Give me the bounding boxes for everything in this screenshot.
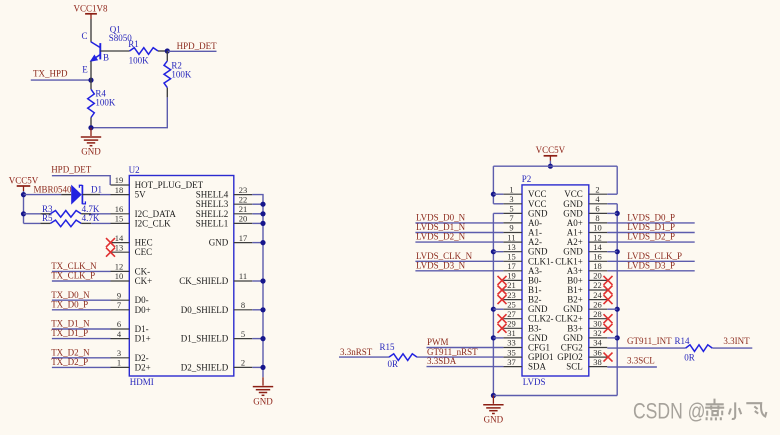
svg-text:CEC: CEC bbox=[135, 247, 153, 257]
junction pin 1 VCC bbox=[491, 192, 496, 197]
wire VCC rail right to pin 2 bbox=[616, 166, 618, 194]
svg-text:D0-: D0- bbox=[135, 295, 149, 305]
svg-text:21: 21 bbox=[507, 280, 516, 290]
svg-text:3.3SDA: 3.3SDA bbox=[427, 356, 457, 366]
svg-text:15: 15 bbox=[507, 252, 516, 262]
junction GND rail right bbox=[615, 211, 620, 216]
pin anode of D1 bbox=[61, 194, 71, 196]
svg-text:8: 8 bbox=[595, 213, 599, 223]
junction bbox=[165, 48, 170, 53]
wire rail to pin bbox=[493, 337, 503, 339]
svg-text:B: B bbox=[103, 52, 109, 62]
svg-text:100K: 100K bbox=[95, 98, 116, 108]
svg-text:5: 5 bbox=[241, 329, 245, 339]
svg-text:24: 24 bbox=[593, 290, 602, 300]
svg-text:GND: GND bbox=[484, 415, 504, 425]
svg-text:23: 23 bbox=[507, 290, 516, 300]
svg-text:CK+: CK+ bbox=[135, 276, 153, 286]
svg-text:20: 20 bbox=[593, 271, 602, 281]
pin 11 (CK_SHIELD) of U2 bbox=[179, 271, 252, 286]
svg-text:B3-: B3- bbox=[528, 323, 542, 333]
svg-text:1: 1 bbox=[117, 358, 121, 368]
pin 18 (A3+) of P2 bbox=[567, 261, 608, 276]
wire net LVDS_D1_P bbox=[607, 232, 694, 234]
pin of R5 bbox=[40, 222, 50, 224]
wire net LVDS_D3_N bbox=[415, 270, 503, 272]
wire shield pin row to rail bbox=[252, 203, 263, 205]
pin 35 (GPIO1) of P2 bbox=[503, 347, 553, 362]
wire VCC5V to rail P2 bbox=[549, 161, 551, 166]
svg-text:10: 10 bbox=[115, 271, 124, 281]
svg-text:10: 10 bbox=[593, 223, 602, 233]
svg-text:19: 19 bbox=[115, 175, 124, 185]
no-connect X pin 28 bbox=[604, 314, 613, 323]
svg-text:R14: R14 bbox=[675, 336, 691, 346]
wire R4 lead bbox=[90, 118, 92, 128]
no-connect X pin 22 bbox=[604, 286, 613, 295]
no-connect X pin 30 bbox=[604, 324, 613, 333]
pin 10 (CK+) of U2 bbox=[111, 271, 153, 286]
wire rail to pin bbox=[493, 193, 503, 195]
pin 24 (B2+) of P2 bbox=[567, 290, 607, 305]
junction bbox=[260, 202, 265, 207]
power VCC5V at P2 bbox=[536, 145, 566, 161]
svg-text:MBR0540: MBR0540 bbox=[34, 184, 73, 194]
svg-text:35: 35 bbox=[507, 347, 516, 357]
svg-text:21: 21 bbox=[239, 204, 248, 214]
wire net 3.3nRST bbox=[339, 356, 389, 358]
svg-text:HEC: HEC bbox=[135, 238, 153, 248]
svg-text:18: 18 bbox=[115, 185, 124, 195]
wire shield pin row to rail bbox=[252, 366, 263, 368]
svg-text:VCC: VCC bbox=[564, 189, 583, 199]
svg-text:B1-: B1- bbox=[528, 285, 542, 295]
wire net LVDS_D3_P bbox=[607, 270, 694, 272]
wire net TX_D1_N bbox=[52, 328, 111, 330]
no-connect X pin 24 bbox=[604, 295, 613, 304]
pin 16 (CLK1+) of P2 bbox=[555, 252, 607, 267]
junction bbox=[260, 278, 265, 283]
svg-text:LVDS_D3_N: LVDS_D3_N bbox=[416, 260, 466, 270]
junction GND bottom bbox=[491, 393, 496, 398]
svg-text:25: 25 bbox=[507, 299, 516, 309]
svg-text:SHELL2: SHELL2 bbox=[196, 209, 229, 219]
pin 10 (A1+) of P2 bbox=[567, 223, 608, 238]
wire R2 to ground node bbox=[91, 97, 167, 127]
wire net 3.3INT bbox=[712, 347, 752, 349]
svg-text:D1+: D1+ bbox=[135, 334, 151, 344]
pin 8 (A0+) of P2 bbox=[567, 213, 608, 228]
junction GND rail left bbox=[491, 307, 496, 312]
svg-text:D1-: D1- bbox=[135, 324, 149, 334]
svg-text:17: 17 bbox=[507, 261, 516, 271]
wire net LVDS_CLK_N bbox=[415, 260, 503, 262]
svg-text:16: 16 bbox=[115, 204, 124, 214]
svg-text:20: 20 bbox=[239, 214, 248, 224]
svg-text:16: 16 bbox=[593, 252, 602, 262]
svg-text:12: 12 bbox=[115, 262, 124, 272]
pin 7 (D0+) of U2 bbox=[111, 300, 151, 315]
wire net HPD_DET bbox=[167, 50, 216, 52]
svg-text:LVDS_D1_P: LVDS_D1_P bbox=[627, 222, 675, 232]
junction bbox=[260, 240, 265, 245]
wire net LVDS_D0_P bbox=[607, 222, 694, 224]
svg-text:33: 33 bbox=[507, 338, 516, 348]
svg-text:GND: GND bbox=[81, 147, 101, 157]
wire emitter to node bbox=[90, 61, 92, 80]
svg-text:37: 37 bbox=[507, 357, 516, 367]
svg-text:R1: R1 bbox=[128, 39, 139, 49]
pin 13 (GND) of P2 bbox=[503, 242, 548, 257]
svg-text:B2-: B2- bbox=[528, 295, 542, 305]
pin 8 (D0_SHIELD) of U2 bbox=[181, 300, 252, 315]
wire GND rail right of P2 bbox=[616, 204, 618, 396]
svg-text:D2-: D2- bbox=[135, 353, 149, 363]
svg-text:D0_SHIELD: D0_SHIELD bbox=[181, 305, 229, 315]
svg-text:TX_D1_P: TX_D1_P bbox=[51, 328, 88, 338]
svg-text:28: 28 bbox=[593, 309, 602, 319]
wire R3 to pin 16 bbox=[91, 213, 110, 215]
no-connect X pin 13 bbox=[106, 248, 115, 257]
svg-text:A3-: A3- bbox=[528, 266, 542, 276]
svg-text:GND: GND bbox=[209, 238, 229, 248]
svg-text:CLK2+: CLK2+ bbox=[555, 314, 583, 324]
svg-text:P2: P2 bbox=[522, 174, 532, 184]
pin 15 (I2C_CLK) of U2 bbox=[111, 214, 172, 229]
wire shield pin row to rail bbox=[252, 222, 263, 224]
pin 7 (A0-) of P2 bbox=[503, 213, 542, 228]
svg-text:A2+: A2+ bbox=[567, 237, 583, 247]
junction GND rail left bbox=[491, 249, 496, 254]
pin 12 (A2+) of P2 bbox=[567, 232, 608, 247]
pin 5 (D1_SHIELD) of U2 bbox=[181, 329, 252, 344]
wire rail to pin right bbox=[607, 212, 617, 214]
svg-text:B3+: B3+ bbox=[567, 323, 583, 333]
svg-text:22: 22 bbox=[239, 194, 248, 204]
pin 14 (HEC) of U2 bbox=[111, 233, 153, 248]
pin 32 (GND) of P2 bbox=[563, 328, 607, 343]
pin 6 (GND) of P2 bbox=[563, 204, 607, 219]
svg-text:LVDS: LVDS bbox=[523, 377, 546, 387]
resistor R4 bbox=[88, 89, 95, 117]
resistor R3 bbox=[50, 211, 81, 218]
pin 36 (GPIO2) of P2 bbox=[557, 347, 607, 362]
svg-text:U2: U2 bbox=[129, 165, 140, 175]
pin 20 (B0+) of P2 bbox=[567, 271, 607, 286]
wire shield pin row to rail bbox=[252, 338, 263, 340]
pin 27 (CLK2-) of P2 bbox=[503, 309, 553, 324]
svg-text:LVDS_D1_N: LVDS_D1_N bbox=[416, 222, 466, 232]
svg-text:B1+: B1+ bbox=[567, 285, 583, 295]
wire rail to pin bbox=[493, 203, 503, 205]
wire VCC5V to D1 bbox=[24, 194, 62, 196]
pin 23 (SHELL4) of U2 bbox=[196, 185, 252, 200]
wire VCC top rail bbox=[493, 165, 617, 167]
svg-text:3.3nRST: 3.3nRST bbox=[340, 347, 373, 357]
wire U2 shield ground rail bbox=[252, 195, 263, 378]
svg-text:GND: GND bbox=[528, 247, 548, 257]
pin 20 (SHELL1) of U2 bbox=[196, 214, 252, 229]
wire rail to pin right bbox=[607, 203, 617, 205]
transistor Q1 bbox=[91, 42, 101, 62]
svg-text:29: 29 bbox=[507, 319, 516, 329]
watermark CSDN @yanxiaofei bbox=[633, 398, 766, 423]
svg-text:38: 38 bbox=[593, 357, 602, 367]
svg-text:CK_SHIELD: CK_SHIELD bbox=[179, 276, 228, 286]
svg-text:LVDS_D0_N: LVDS_D0_N bbox=[416, 213, 466, 223]
connector U2 (HDMI) box bbox=[129, 176, 234, 377]
svg-text:32: 32 bbox=[593, 328, 602, 338]
wire net 3.3SCL bbox=[607, 366, 657, 368]
wire net TX_CLK_P bbox=[52, 280, 111, 282]
svg-text:6: 6 bbox=[595, 204, 599, 214]
connector P2 (LVDS) box bbox=[522, 185, 589, 376]
pin 19 (B0-) of P2 bbox=[503, 271, 541, 286]
wire node to R4 bbox=[90, 80, 92, 89]
wire VCC5V rail bbox=[23, 191, 25, 223]
svg-text:18: 18 bbox=[593, 261, 602, 271]
pin 1 (D2+) of U2 bbox=[111, 358, 151, 373]
wire rail to pin bbox=[493, 212, 503, 214]
wire net TX_D2_N bbox=[52, 357, 111, 359]
svg-text:4.7K: 4.7K bbox=[82, 213, 100, 223]
svg-text:D1: D1 bbox=[91, 184, 102, 194]
svg-text:D0+: D0+ bbox=[135, 305, 151, 315]
wire net TX_HPD bbox=[31, 79, 91, 81]
wire rail to pin bbox=[493, 308, 503, 310]
resistor R1 bbox=[130, 48, 159, 55]
no-connect X pin 14 bbox=[106, 238, 115, 247]
ground GND of P2 bbox=[483, 396, 503, 425]
svg-text:7: 7 bbox=[117, 300, 121, 310]
svg-text:5: 5 bbox=[509, 204, 513, 214]
svg-text:TX_D0_P: TX_D0_P bbox=[51, 299, 88, 309]
svg-text:HOT_PLUG_DET: HOT_PLUG_DET bbox=[135, 180, 204, 190]
wire shield pin row to rail bbox=[252, 242, 263, 244]
junction VCC rail / D1 bbox=[21, 192, 26, 197]
wire base to R1 bbox=[100, 50, 129, 52]
svg-text:3: 3 bbox=[117, 348, 121, 358]
svg-text:GND: GND bbox=[563, 247, 583, 257]
svg-text:HPD_DET: HPD_DET bbox=[51, 165, 92, 175]
svg-text:SDA: SDA bbox=[528, 362, 547, 372]
resistor R5 bbox=[50, 220, 81, 227]
ground GND of transistor circuit bbox=[81, 128, 101, 157]
wire net LVDS_D2_P bbox=[607, 241, 694, 243]
svg-text:A1+: A1+ bbox=[567, 228, 583, 238]
wire R2 lead bbox=[166, 88, 168, 98]
svg-text:B2+: B2+ bbox=[567, 295, 583, 305]
svg-text:LVDS_CLK_P: LVDS_CLK_P bbox=[627, 251, 682, 261]
svg-text:A1-: A1- bbox=[528, 228, 542, 238]
no-connect X pin 20 bbox=[604, 276, 613, 285]
svg-text:6: 6 bbox=[117, 319, 121, 329]
svg-text:CFG1: CFG1 bbox=[528, 343, 550, 353]
no-connect X pin 21 bbox=[498, 286, 507, 295]
svg-text:31: 31 bbox=[507, 328, 516, 338]
svg-text:100K: 100K bbox=[129, 56, 150, 66]
wire shield pin row to rail bbox=[252, 213, 263, 215]
junction bbox=[260, 336, 265, 341]
wire HPD_DET to pin 19 bbox=[52, 176, 110, 185]
svg-text:R15: R15 bbox=[380, 342, 396, 352]
svg-text:GND: GND bbox=[563, 333, 583, 343]
svg-text:CFG2: CFG2 bbox=[561, 343, 583, 353]
svg-text:D2+: D2+ bbox=[135, 362, 151, 372]
wire D1 to pin 18 bbox=[100, 194, 111, 196]
svg-text:LVDS_D2_P: LVDS_D2_P bbox=[627, 232, 675, 242]
wire collector to VCC1V8 bbox=[90, 19, 92, 42]
svg-text:11: 11 bbox=[239, 271, 247, 281]
svg-text:19: 19 bbox=[507, 271, 516, 281]
ground GND of U2 shield bbox=[253, 377, 273, 406]
wire VCC5V to R3 bbox=[24, 213, 41, 215]
wire shield pin row to rail bbox=[252, 309, 263, 311]
wire R1 to node HPD_DET bbox=[158, 50, 167, 52]
no-connect X pin 19 bbox=[498, 276, 507, 285]
pin 33 (CFG1) of P2 bbox=[503, 338, 550, 353]
wire net TX_D2_P bbox=[52, 366, 111, 368]
svg-text:SHELL4: SHELL4 bbox=[196, 190, 229, 200]
svg-text:A0-: A0- bbox=[528, 218, 542, 228]
svg-text:CLK2-: CLK2- bbox=[528, 314, 554, 324]
pin 17 (GND) of U2 bbox=[209, 233, 253, 248]
svg-text:PWM: PWM bbox=[427, 337, 449, 347]
svg-text:VCC5V: VCC5V bbox=[536, 145, 566, 155]
power VCC1V8 bbox=[73, 3, 108, 19]
pin 19 (HOT_PLUG_DET) of U2 bbox=[111, 175, 204, 190]
svg-text:LVDS_D2_N: LVDS_D2_N bbox=[416, 232, 466, 242]
svg-text:TX_D0_N: TX_D0_N bbox=[51, 290, 90, 300]
pin 4 (D1+) of U2 bbox=[111, 329, 151, 344]
resistor R2 bbox=[164, 61, 171, 88]
wire shield pin row to rail bbox=[252, 280, 263, 282]
svg-text:TX_CLK_P: TX_CLK_P bbox=[51, 271, 95, 281]
wire net GT911_nRST bbox=[417, 356, 503, 358]
wire net LVDS_D2_N bbox=[415, 241, 503, 243]
svg-text:VCC1V8: VCC1V8 bbox=[73, 3, 108, 13]
pin 4 (GND) of P2 bbox=[563, 194, 607, 209]
svg-text:VCC: VCC bbox=[528, 189, 547, 199]
svg-text:GPIO1: GPIO1 bbox=[528, 352, 554, 362]
svg-text:A3+: A3+ bbox=[567, 266, 583, 276]
wire rail to pin right bbox=[607, 337, 617, 339]
svg-text:8: 8 bbox=[241, 300, 245, 310]
svg-text:GND: GND bbox=[253, 396, 273, 406]
wire GND rail left of P2 bbox=[492, 213, 494, 395]
wire net TX_D1_P bbox=[52, 338, 111, 340]
wire net LVDS_D0_N bbox=[415, 222, 503, 224]
wire rail to pin right bbox=[607, 251, 617, 253]
pin 31 (GND) of P2 bbox=[503, 328, 548, 343]
svg-text:15: 15 bbox=[115, 214, 124, 224]
pin of R3 right bbox=[81, 213, 91, 215]
pin 16 (I2C_DATA) of U2 bbox=[111, 204, 177, 219]
svg-text:HPD_DET: HPD_DET bbox=[177, 41, 218, 51]
svg-text:SHELL3: SHELL3 bbox=[196, 199, 229, 209]
junction GND rail right bbox=[615, 335, 620, 340]
wire node to R2 bbox=[166, 51, 168, 61]
svg-text:11: 11 bbox=[507, 232, 515, 242]
wire net TX_D0_N bbox=[52, 299, 111, 301]
pin 21 (SHELL2) of U2 bbox=[196, 204, 252, 219]
pin 9 (D0-) of U2 bbox=[111, 290, 149, 305]
svg-text:14: 14 bbox=[115, 233, 124, 243]
svg-text:R5: R5 bbox=[42, 213, 53, 223]
pin 26 (GND) of P2 bbox=[563, 299, 607, 314]
svg-text:B0+: B0+ bbox=[567, 275, 583, 285]
svg-text:13: 13 bbox=[507, 242, 516, 252]
svg-text:14: 14 bbox=[593, 242, 602, 252]
svg-text:9: 9 bbox=[117, 290, 121, 300]
pin 22 (SHELL3) of U2 bbox=[196, 194, 252, 209]
svg-text:TX_HPD: TX_HPD bbox=[33, 68, 68, 78]
pin 23 (B2-) of P2 bbox=[503, 290, 541, 305]
svg-text:GT911_INT: GT911_INT bbox=[627, 336, 672, 346]
svg-text:7: 7 bbox=[509, 213, 513, 223]
wire net PWM bbox=[427, 347, 504, 349]
svg-text:CLK1-: CLK1- bbox=[528, 256, 554, 266]
svg-text:0R: 0R bbox=[684, 352, 695, 362]
svg-text:I2C_CLK: I2C_CLK bbox=[135, 218, 172, 228]
wire rail to pin right bbox=[607, 193, 617, 195]
resistor R15 bbox=[389, 354, 417, 361]
svg-text:12: 12 bbox=[593, 232, 602, 242]
svg-text:GND: GND bbox=[563, 208, 583, 218]
resistor R14 bbox=[686, 345, 713, 352]
svg-text:HDMI: HDMI bbox=[130, 377, 154, 387]
pin 34 (CFG2) of P2 bbox=[561, 338, 608, 353]
wire GND bottom rail bbox=[493, 395, 617, 397]
junction bbox=[260, 221, 265, 226]
svg-text:26: 26 bbox=[593, 299, 602, 309]
svg-text:C: C bbox=[81, 31, 87, 41]
junction VCC5V node bbox=[548, 164, 553, 169]
svg-text:A2-: A2- bbox=[528, 237, 542, 247]
pin 25 (GND) of P2 bbox=[503, 299, 548, 314]
no-connect X pin 23 bbox=[498, 295, 507, 304]
svg-text:TX_D2_P: TX_D2_P bbox=[51, 357, 88, 367]
junction bbox=[260, 307, 265, 312]
svg-text:3.3SCL: 3.3SCL bbox=[627, 356, 655, 366]
svg-text:5V: 5V bbox=[135, 190, 147, 200]
pin of R5 right bbox=[81, 222, 91, 224]
svg-text:D1_SHIELD: D1_SHIELD bbox=[181, 334, 229, 344]
svg-text:CK-: CK- bbox=[135, 266, 151, 276]
svg-text:TX_D1_N: TX_D1_N bbox=[51, 319, 90, 329]
svg-text:TX_CLK_N: TX_CLK_N bbox=[51, 261, 97, 271]
wire net TX_CLK_N bbox=[52, 270, 111, 272]
pin cathode of D1 bbox=[82, 194, 100, 196]
wire net LVDS_D1_N bbox=[415, 232, 503, 234]
svg-text:LVDS_CLK_N: LVDS_CLK_N bbox=[416, 251, 473, 261]
svg-text:30: 30 bbox=[593, 319, 602, 329]
pin 14 (GND) of P2 bbox=[563, 242, 607, 257]
junction GND rail right bbox=[615, 249, 620, 254]
pin 38 (SCL) of P2 bbox=[566, 357, 607, 372]
svg-text:2: 2 bbox=[241, 358, 245, 368]
svg-text:GND: GND bbox=[563, 199, 583, 209]
svg-text:CSDN @: CSDN @ bbox=[633, 398, 706, 423]
svg-text:34: 34 bbox=[593, 338, 602, 348]
pin of R3 bbox=[40, 213, 50, 215]
pin 11 (A2-) of P2 bbox=[503, 232, 542, 247]
junction node E bbox=[88, 78, 93, 83]
junction bbox=[260, 211, 265, 216]
wire net 3.3SDA bbox=[427, 366, 504, 368]
wire net TX_D0_P bbox=[52, 309, 111, 311]
svg-text:LVDS_D0_P: LVDS_D0_P bbox=[627, 213, 675, 223]
